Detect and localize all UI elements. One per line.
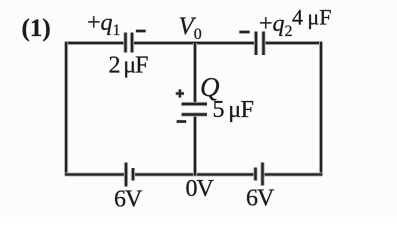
svg-text:2 μF: 2 μF xyxy=(109,53,149,79)
svg-text:0V: 0V xyxy=(186,176,215,202)
wire bottom-right segment xyxy=(264,173,323,177)
capacitor C2 4uF right plate xyxy=(261,32,265,56)
capacitor Q 5uF top plate xyxy=(182,102,208,106)
svg-text:4 μF: 4 μF xyxy=(292,5,331,30)
svg-text:+q2: +q2 xyxy=(259,11,293,40)
wire center branch upper xyxy=(193,43,197,103)
wire top-middle segment xyxy=(133,41,255,45)
svg-text:5 μF: 5 μF xyxy=(213,97,254,123)
svg-text:6V: 6V xyxy=(114,187,143,213)
svg-text:(1): (1) xyxy=(22,15,51,42)
capacitor C2 4uF left plate xyxy=(254,32,258,56)
polarity minus of Q xyxy=(176,120,186,123)
wire bottom-middle segment xyxy=(134,173,254,177)
polarity plus of Q xyxy=(176,89,184,97)
svg-text:+q1: +q1 xyxy=(87,10,121,39)
svg-text:V0: V0 xyxy=(179,13,202,43)
wire center branch lower xyxy=(193,116,197,176)
wire left side xyxy=(64,42,68,176)
battery B2 6V short plate xyxy=(253,168,257,181)
polarity minus of C1 xyxy=(136,29,146,32)
wire right side xyxy=(319,42,323,176)
svg-text:6V: 6V xyxy=(246,186,275,212)
battery B1 6V short plate xyxy=(131,168,135,181)
polarity minus of C2 xyxy=(239,30,250,33)
battery B1 6V long plate xyxy=(124,163,128,187)
battery B2 6V long plate xyxy=(260,163,264,186)
wire bottom-left segment xyxy=(65,173,125,177)
capacitor Q 5uF bottom plate xyxy=(182,112,208,116)
wire top-left segment xyxy=(65,41,124,45)
wire top-right segment xyxy=(265,41,323,45)
capacitor C1 2uF left plate xyxy=(123,33,127,53)
capacitor C1 2uF right plate xyxy=(130,33,134,53)
